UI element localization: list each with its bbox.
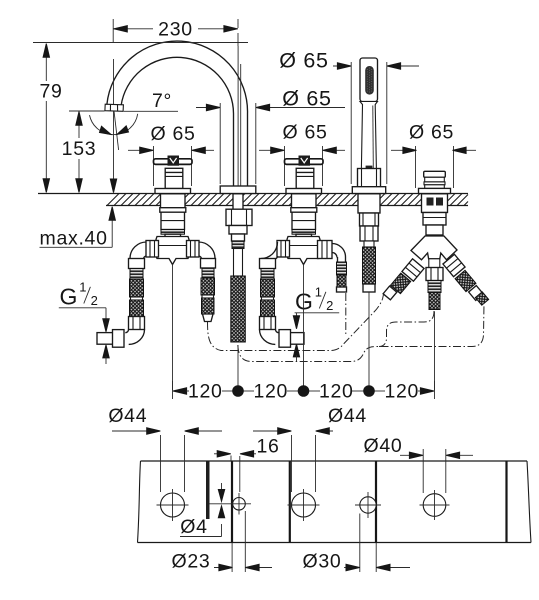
svg-text:7°: 7°	[152, 90, 172, 112]
valve3 flange	[286, 189, 322, 194]
diverter left arm hose	[383, 273, 411, 300]
dash-dot stub valve3R	[345, 293, 347, 336]
spout below-deck shank	[226, 194, 252, 234]
svg-text:G: G	[60, 284, 78, 310]
7deg tilted line	[114, 111, 119, 150]
diverter right arm nut	[443, 254, 465, 276]
7deg angle arc with arrowheads	[90, 114, 138, 135]
svg-text:1: 1	[315, 285, 322, 300]
diverter neck	[426, 225, 443, 235]
valve1 bottom elbow to G1/2	[97, 330, 145, 348]
valve3 right hose	[337, 262, 347, 292]
dash-dot route valve1R to diverter left arm	[208, 295, 384, 351]
diverter Y body	[411, 236, 457, 268]
hand shower handle	[360, 102, 378, 171]
dimension 79	[39, 44, 62, 193]
spout outlet tip	[105, 104, 124, 111]
120 dimension row	[173, 380, 435, 402]
svg-text:16: 16	[256, 435, 279, 457]
valve1 stem and body	[165, 168, 183, 188]
svg-text:2: 2	[91, 293, 98, 308]
valve3 bottom elbow to G1/2 pointing right	[260, 330, 305, 348]
valve1 body	[155, 230, 190, 265]
shower hose nut	[360, 226, 378, 241]
spout center extension line	[237, 24, 239, 47]
dash-dot route diverter center detour	[379, 311, 434, 347]
svg-text:120: 120	[319, 380, 354, 402]
svg-text:Ø 65: Ø 65	[279, 49, 328, 73]
dimension 230 text	[158, 18, 193, 40]
deck bottom line	[106, 205, 468, 207]
valve1 right elbow	[199, 242, 216, 259]
diverter flange	[419, 188, 451, 193]
valve3 body	[286, 230, 321, 265]
diverter center hose	[426, 268, 443, 310]
svg-text:Ø 65: Ø 65	[282, 87, 331, 111]
diverter left arm nut	[402, 259, 424, 281]
center extension lines to 120 row	[173, 264, 435, 391]
deck top line	[38, 193, 468, 195]
valve1 flange	[155, 189, 191, 194]
G 1/2 label left	[59, 280, 109, 365]
plan hole5 O40	[420, 490, 450, 520]
shower below-deck shank	[358, 194, 380, 226]
svg-text:120: 120	[253, 380, 288, 402]
spout C-arc tube	[107, 41, 248, 186]
plan hole3 O44	[288, 489, 320, 521]
dash-dot route spout to diverter right arm	[238, 303, 484, 362]
hand shower flange	[352, 187, 385, 194]
O65 valve3 dimension	[259, 122, 345, 187]
hand shower holder	[358, 169, 381, 187]
shower hose	[363, 241, 376, 292]
svg-text:153: 153	[62, 138, 97, 160]
G 1/2 label middle	[293, 285, 339, 363]
deck hatching	[107, 194, 468, 206]
O44 left dimension	[108, 405, 222, 492]
valve3 cross handle	[285, 156, 324, 165]
valve1 left nut	[146, 241, 159, 258]
O65 valve1 dimension	[128, 123, 214, 186]
O65 spout dimension	[196, 87, 345, 185]
svg-text:Ø 65: Ø 65	[282, 122, 327, 144]
valve1 right hose	[201, 259, 216, 322]
plan view deck strip	[138, 461, 532, 543]
spout hose nut	[232, 234, 245, 249]
plan hole1 O44	[157, 489, 189, 521]
plan O4 slot bar	[206, 461, 210, 520]
svg-text:max.40: max.40	[40, 228, 108, 250]
valve3 below-deck shank	[291, 194, 317, 230]
O30 dimension	[303, 514, 410, 573]
water flow line with down arrow	[110, 59, 116, 193]
plan hole2 O23	[210, 493, 252, 515]
valve3 left elbow	[261, 242, 278, 259]
svg-text:Ø40: Ø40	[364, 435, 403, 457]
O40 dimension	[364, 435, 473, 493]
hand shower head	[360, 58, 378, 102]
svg-text:Ø 65: Ø 65	[409, 122, 454, 144]
O65 shower dimension	[279, 49, 419, 185]
outlet-level extension line with 7deg underline	[69, 110, 178, 112]
valve1 cross handle	[154, 156, 193, 165]
svg-text:79: 79	[39, 81, 62, 103]
16 dimension	[214, 435, 280, 492]
spout inner seam lines	[238, 46, 241, 186]
plan hole4 O30	[355, 492, 381, 518]
O4 dimension	[180, 483, 225, 538]
svg-text:Ø23: Ø23	[172, 551, 211, 573]
O65 diverter dimension	[391, 122, 476, 189]
svg-text:2: 2	[326, 298, 333, 313]
svg-text:120: 120	[188, 380, 223, 402]
O44 right dimension	[253, 405, 367, 492]
svg-text:Ø4: Ø4	[180, 516, 207, 538]
spout hose tube	[234, 249, 243, 277]
valve3 left nut	[277, 241, 290, 258]
valve3 stem and body	[296, 168, 314, 188]
valve1 left hose stack	[129, 259, 145, 330]
valve1 below-deck shank	[160, 194, 186, 230]
svg-text:Ø 65: Ø 65	[150, 123, 195, 145]
diverter right arm hose	[455, 270, 489, 305]
7deg text	[152, 90, 172, 112]
svg-text:1: 1	[79, 280, 86, 295]
svg-text:120: 120	[384, 380, 419, 402]
O23 dimension	[172, 511, 272, 573]
svg-text:Ø44: Ø44	[108, 405, 147, 427]
svg-text:230: 230	[158, 18, 193, 40]
spout escutcheon flange	[220, 186, 256, 194]
diverter below-deck shank	[422, 194, 448, 225]
svg-text:Ø30: Ø30	[303, 551, 342, 573]
diverter knob	[424, 171, 446, 188]
valve1 left elbow	[130, 242, 147, 259]
max.40 dimension	[40, 207, 116, 250]
svg-text:Ø44: Ø44	[328, 405, 367, 427]
dimension 230 line	[113, 19, 238, 42]
valve3 right elbow pipe	[332, 244, 346, 263]
spout braided hose	[231, 276, 246, 342]
dimension 153	[62, 112, 97, 193]
valve3 left hose stack	[260, 259, 276, 330]
top tangent extension line	[33, 42, 248, 44]
valve3 right nut	[318, 241, 333, 259]
valve1 right nut	[187, 241, 200, 258]
